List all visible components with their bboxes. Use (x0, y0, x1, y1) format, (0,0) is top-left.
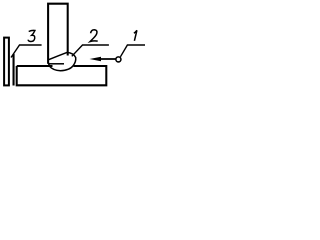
weld bead outline (48, 52, 76, 70)
plate 3 (thin vertical rectangle) (4, 38, 9, 86)
label 1 (134, 30, 137, 41)
label 3 (28, 30, 35, 41)
arrowhead (90, 57, 102, 62)
leader line 1 (120, 45, 145, 57)
base plate (workpiece) (17, 66, 107, 85)
arrow (welding direction) (98, 58, 116, 60)
circle (electrode holder pivot) (116, 57, 121, 62)
leader line 2 (72, 45, 109, 56)
electrode (vertical rectangle) (48, 4, 68, 64)
leader line 3 (11, 45, 42, 58)
pool surface line (48, 63, 64, 65)
vertical bar beside plate (13, 54, 15, 86)
label 2 (90, 30, 98, 42)
